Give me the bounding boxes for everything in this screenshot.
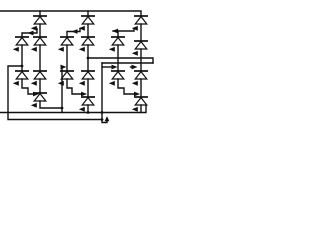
wire D9-D15: [140, 49, 142, 71]
wire arrow D12 into D17: [81, 92, 87, 97]
arrow at D17 anode: [79, 107, 85, 112]
arrow at D9 anode: [132, 51, 138, 56]
diode D13: [81, 71, 95, 79]
wire D8 top lead: [117, 31, 119, 37]
junction left tap: [21, 65, 24, 68]
wire D17 bottom: [87, 105, 89, 113]
arrow at D11 anode: [31, 81, 37, 86]
wire D14 jog: [118, 79, 134, 94]
diode D2: [81, 16, 95, 24]
wire tap to D2: [87, 11, 89, 16]
wire top bus: [0, 11, 141, 16]
arrow at D7 anode: [79, 47, 85, 52]
junction x62 y108: [61, 107, 64, 110]
wire stub into D14: [102, 66, 112, 68]
diode D6: [60, 37, 74, 45]
diode D18: [134, 97, 148, 105]
wire D5-D11: [39, 45, 41, 71]
wire feed D6: [67, 29, 80, 38]
wire D4-D10: [21, 45, 23, 71]
wire D7-D13: [87, 45, 89, 71]
wire arrow into D12: [61, 65, 67, 70]
wire right drop: [102, 63, 107, 123]
wire D12 jog: [67, 79, 81, 94]
wire x62 drop: [61, 67, 63, 113]
arrow at D6 anode: [58, 47, 64, 52]
wire D3-D9: [140, 24, 142, 41]
diode D3: [134, 16, 148, 24]
junction bottom rail right drop: [101, 118, 104, 121]
arrow at D2 anode: [79, 26, 85, 31]
arrow at D18 anode: [132, 107, 138, 112]
wire D11-D16: [39, 79, 41, 93]
diode D10: [15, 71, 29, 79]
wire D16 bottom: [40, 101, 62, 108]
diode D5: [33, 37, 47, 45]
arrow at D1 anode: [31, 26, 37, 31]
junction net y58 at D7 string: [87, 57, 90, 60]
wire arrow up right drop: [105, 116, 110, 121]
diode D1: [33, 16, 47, 24]
wire bottom bus: [0, 106, 146, 113]
wire feed D4: [22, 29, 37, 38]
wire arrow feed D6: [72, 29, 78, 34]
wire D13-D17: [87, 79, 89, 97]
diode D17: [81, 97, 95, 105]
wire arrow feed D8: [112, 29, 118, 34]
wire tap to D1: [39, 11, 41, 16]
diode D7: [81, 37, 95, 45]
arrow at D15 anode: [132, 81, 138, 86]
wire net y63: [102, 62, 153, 64]
wire D8-D14: [117, 45, 119, 71]
wire arrow feed D4: [28, 31, 34, 36]
wire D15-D18: [140, 79, 142, 97]
junction bottom bus right drop: [101, 111, 104, 114]
diode D4: [15, 37, 29, 45]
wire stub into D15: [131, 66, 133, 68]
arrow at D12 anode: [58, 81, 64, 86]
diode D16: [33, 93, 47, 101]
diode D15: [134, 71, 148, 79]
arrow at D4 anode: [13, 47, 19, 52]
wire arrow into D15: [132, 65, 138, 70]
arrow at D16 anode: [31, 103, 37, 108]
wire D18 bottom: [140, 105, 142, 113]
wire D10 jog: [22, 79, 33, 94]
wire left tap drop: [8, 66, 102, 120]
wire arrow into D14: [112, 65, 118, 70]
wire D6-D12: [66, 45, 68, 71]
arrow at D5 anode: [31, 47, 37, 52]
junction bottom bus at D17: [87, 111, 90, 114]
diode D11: [33, 71, 47, 79]
diode D14: [111, 71, 125, 79]
wire D1-D5: [39, 24, 41, 37]
arrow at D14 anode: [109, 81, 115, 86]
wire D2-D7: [87, 24, 89, 37]
wire arrow D10 into D16: [33, 92, 39, 97]
wire feed D8: [113, 29, 134, 32]
wire arrow D14 into D18: [134, 92, 140, 97]
arrow at D13 anode: [79, 81, 85, 86]
arrow at D8 anode: [109, 47, 115, 52]
diode D9: [134, 41, 148, 49]
arrow at D3 anode: [132, 26, 138, 31]
wire net y58: [88, 58, 153, 63]
diode D8: [111, 37, 125, 45]
arrow at D10 anode: [13, 81, 19, 86]
diode D12: [60, 71, 74, 79]
